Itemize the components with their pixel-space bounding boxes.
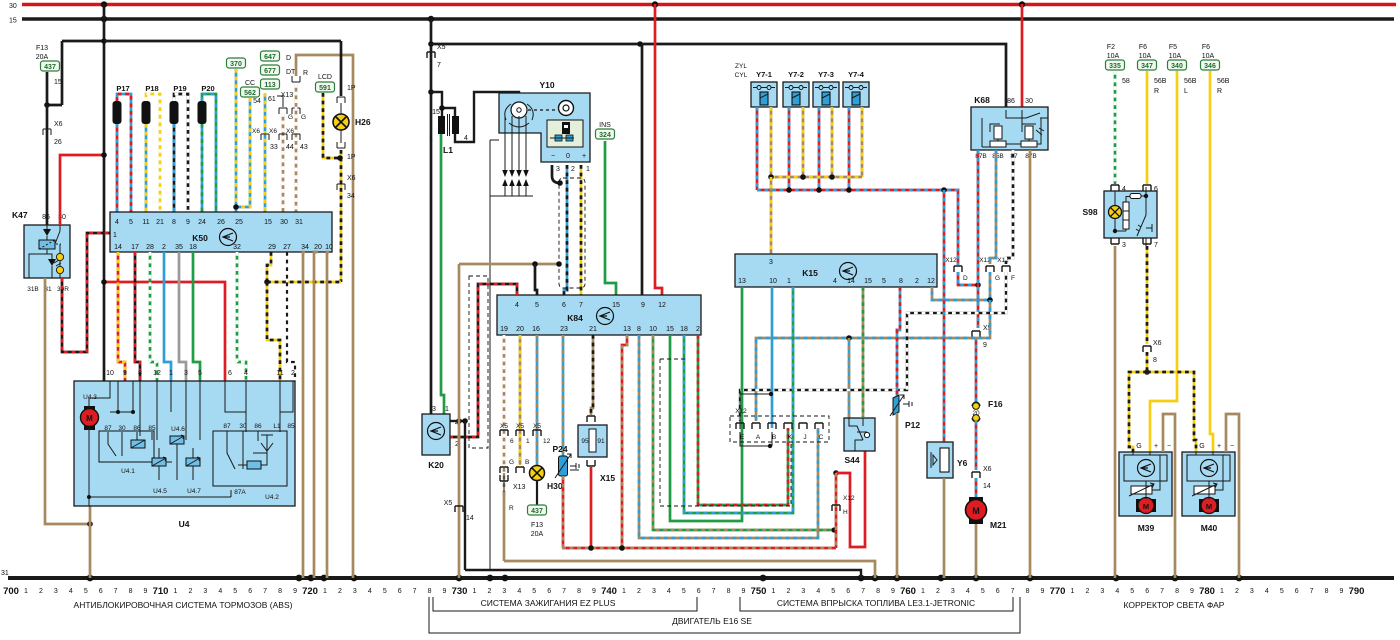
svg-text:X12: X12 xyxy=(735,408,747,415)
svg-text:770: 770 xyxy=(1050,586,1066,597)
wire fuse to K47 pin86 xyxy=(46,105,49,225)
svg-text:44: 44 xyxy=(286,144,294,151)
svg-text:X13: X13 xyxy=(513,484,526,491)
svg-text:591: 591 xyxy=(319,85,331,92)
svg-text:M: M xyxy=(1143,502,1149,511)
wire Y6 ground xyxy=(943,478,946,578)
svg-text:4: 4 xyxy=(667,588,671,595)
wire Y10-3 to cable shield xyxy=(552,165,560,183)
svg-text:9: 9 xyxy=(891,588,895,595)
svg-text:9: 9 xyxy=(144,588,148,595)
fuel pump M21 xyxy=(969,497,983,524)
ignition coil L1 xyxy=(431,92,442,116)
svg-text:2: 2 xyxy=(291,370,295,377)
svg-text:4: 4 xyxy=(69,588,73,595)
wire K20-4 xyxy=(450,420,465,422)
svg-text:3: 3 xyxy=(1100,588,1104,595)
wire brown ground link y561 xyxy=(504,561,875,578)
spark plug gaps xyxy=(504,116,506,196)
svg-text:780: 780 xyxy=(1199,586,1215,597)
svg-text:86: 86 xyxy=(42,214,50,221)
wire K84-4 coil primary shielded xyxy=(450,284,517,437)
wire X12-D to fuel pump line xyxy=(958,272,978,285)
ABS control unit connector K50 xyxy=(110,212,332,252)
wire K50-34 ground xyxy=(303,252,305,578)
wire to M39-G xyxy=(1129,372,1147,452)
wire K20-4 ground link xyxy=(464,421,466,570)
svg-text:2: 2 xyxy=(571,166,575,173)
svg-text:30: 30 xyxy=(280,219,288,226)
wire K84-15 to K15-13 xyxy=(670,287,742,521)
wire feed y44 to K68-86 xyxy=(431,44,1006,110)
svg-text:+: + xyxy=(1154,443,1158,450)
shield of distributor cable xyxy=(559,178,585,288)
wire signal y548 xyxy=(562,547,836,550)
svg-text:19: 19 xyxy=(500,326,508,333)
svg-text:−: − xyxy=(1167,443,1171,450)
svg-text:B: B xyxy=(525,459,529,466)
svg-text:H30: H30 xyxy=(547,481,563,491)
svg-text:−: − xyxy=(551,153,555,160)
relay U4.2 xyxy=(213,431,287,486)
svg-text:24: 24 xyxy=(198,219,206,226)
svg-text:87: 87 xyxy=(104,425,112,432)
relay K47 xyxy=(24,225,70,278)
connector X6 pin 26 xyxy=(43,129,51,135)
svg-text:10A: 10A xyxy=(1139,53,1152,60)
svg-text:61: 61 xyxy=(268,96,276,103)
svg-text:P12: P12 xyxy=(905,420,920,430)
wire 61 to K50 pin15 xyxy=(264,93,267,212)
svg-text:6: 6 xyxy=(228,370,232,377)
svg-text:X5: X5 xyxy=(516,423,524,430)
svg-text:5: 5 xyxy=(882,278,886,285)
svg-text:L: L xyxy=(1184,88,1188,95)
svg-text:5: 5 xyxy=(129,219,133,226)
svg-text:9: 9 xyxy=(592,588,596,595)
svg-text:8: 8 xyxy=(278,588,282,595)
wire S98-3 ground xyxy=(1114,246,1117,578)
svg-text:C: C xyxy=(819,434,824,441)
svg-text:1: 1 xyxy=(526,438,530,445)
svg-text:6: 6 xyxy=(398,588,402,595)
leveling motor M40 xyxy=(1182,452,1235,516)
wire K50-18 to U4-5 xyxy=(193,252,200,381)
svg-text:13: 13 xyxy=(738,278,746,285)
wire K84-13 down xyxy=(622,335,627,548)
svg-text:3: 3 xyxy=(556,166,560,173)
wire to U4 pin11 xyxy=(267,282,280,381)
svg-text:9: 9 xyxy=(1041,588,1045,595)
svg-text:31: 31 xyxy=(1,570,9,577)
wire K50-28 to U4-12 xyxy=(150,252,157,381)
wire K84-19 via X5-6 xyxy=(503,335,506,498)
svg-text:K15: K15 xyxy=(802,268,818,278)
svg-text:20A: 20A xyxy=(531,531,544,538)
wire K50-35 to U4-3 xyxy=(179,252,186,381)
svg-text:2: 2 xyxy=(338,588,342,595)
svg-text:9: 9 xyxy=(742,588,746,595)
svg-text:87: 87 xyxy=(223,423,231,430)
svg-text:5: 5 xyxy=(84,588,88,595)
connector X6 pin 8 xyxy=(1143,346,1151,352)
svg-text:15: 15 xyxy=(432,109,440,116)
svg-text:340: 340 xyxy=(1171,63,1183,70)
svg-text:324: 324 xyxy=(599,132,611,139)
svg-text:29: 29 xyxy=(268,244,276,251)
svg-text:X6: X6 xyxy=(54,121,63,128)
svg-text:21: 21 xyxy=(589,326,597,333)
svg-text:СИСТЕМА ЗАЖИГАНИЯ EZ PLUS: СИСТЕМА ЗАЖИГАНИЯ EZ PLUS xyxy=(481,598,616,608)
connector X12-F xyxy=(1002,266,1010,272)
svg-text:P18: P18 xyxy=(145,84,158,93)
wire K50-29 down xyxy=(267,252,271,282)
wire brown trunk R xyxy=(296,55,353,578)
wire injector feed xyxy=(848,107,851,190)
svg-text:+: + xyxy=(582,153,586,160)
svg-text:СИСТЕМА ВПРЫСКА ТОПЛИВА LE3.1-: СИСТЕМА ВПРЫСКА ТОПЛИВА LE3.1-JETRONIC xyxy=(777,598,975,608)
svg-text:8: 8 xyxy=(172,219,176,226)
svg-text:9: 9 xyxy=(123,370,127,377)
svg-text:15: 15 xyxy=(264,219,272,226)
wire K50-20 ground xyxy=(314,252,318,578)
svg-text:2: 2 xyxy=(162,244,166,251)
svg-text:3: 3 xyxy=(184,370,188,377)
wire H26 to node y282 xyxy=(340,150,343,282)
svg-text:K47: K47 xyxy=(12,210,28,220)
svg-text:23: 23 xyxy=(560,326,568,333)
connector X12-D xyxy=(954,266,962,272)
svg-text:5: 5 xyxy=(682,588,686,595)
svg-text:1: 1 xyxy=(771,588,775,595)
svg-text:M39: M39 xyxy=(1138,523,1155,533)
svg-text:85: 85 xyxy=(148,425,156,432)
wire K50-2 to U4-1 xyxy=(164,252,171,381)
bus 30 (red, top) xyxy=(22,3,1396,7)
svg-text:S98: S98 xyxy=(1082,207,1097,217)
wire S98-7 leveling signal xyxy=(1146,246,1149,344)
wire L1-1 to K20-1 xyxy=(441,134,444,414)
svg-text:8: 8 xyxy=(899,278,903,285)
svg-text:D: D xyxy=(963,275,968,282)
svg-text:335: 335 xyxy=(1109,63,1121,70)
wire injector return xyxy=(802,107,805,177)
wire 15-feed X5 vertical xyxy=(430,19,433,414)
svg-text:346: 346 xyxy=(1204,63,1216,70)
svg-text:9: 9 xyxy=(983,342,987,349)
svg-text:15: 15 xyxy=(54,79,62,86)
svg-text:6: 6 xyxy=(996,588,1000,595)
wire L1-4 to distributor xyxy=(455,92,519,142)
svg-text:347: 347 xyxy=(1141,63,1153,70)
ref boxes 647 677 113 xyxy=(261,51,280,61)
svg-text:20: 20 xyxy=(516,326,524,333)
svg-text:11: 11 xyxy=(276,370,283,377)
svg-text:30: 30 xyxy=(118,425,126,432)
svg-text:6: 6 xyxy=(99,588,103,595)
svg-text:7: 7 xyxy=(1160,588,1164,595)
svg-text:Y7-3: Y7-3 xyxy=(818,70,834,79)
svg-text:10: 10 xyxy=(769,278,777,285)
svg-text:2: 2 xyxy=(1085,588,1089,595)
svg-text:5: 5 xyxy=(198,370,202,377)
svg-text:8: 8 xyxy=(1325,588,1329,595)
wire F5 to M39 plus xyxy=(1150,71,1177,452)
svg-text:86: 86 xyxy=(254,423,262,430)
svg-text:АНТИБЛОКИРОВОЧНАЯ СИСТЕМА ТОРМ: АНТИБЛОКИРОВОЧНАЯ СИСТЕМА ТОРМОЗОВ (ABS) xyxy=(74,600,293,610)
svg-text:X5: X5 xyxy=(533,423,541,430)
svg-text:15: 15 xyxy=(666,326,674,333)
wire injector feed xyxy=(756,107,759,190)
connector X12-G xyxy=(986,266,994,272)
wire Y10-1 to K84-7 xyxy=(580,165,583,295)
svg-text:−: − xyxy=(1230,443,1234,450)
wire INS to K84-15 xyxy=(605,141,616,295)
relay U4.1 xyxy=(99,431,154,462)
svg-text:F16: F16 xyxy=(988,399,1003,409)
svg-text:56B: 56B xyxy=(1217,78,1230,85)
svg-text:56B: 56B xyxy=(1184,78,1197,85)
svg-text:U4.6: U4.6 xyxy=(171,426,185,433)
svg-text:14: 14 xyxy=(847,278,855,285)
svg-text:7: 7 xyxy=(712,588,716,595)
svg-text:1P: 1P xyxy=(347,154,356,161)
svg-text:437: 437 xyxy=(531,508,543,515)
svg-text:6: 6 xyxy=(846,588,850,595)
svg-text:G: G xyxy=(1136,443,1141,450)
svg-text:КОРРЕКТОР СВЕТА ФАР: КОРРЕКТОР СВЕТА ФАР xyxy=(1124,600,1225,610)
wire K50-10 ground xyxy=(327,252,329,578)
svg-text:31B: 31B xyxy=(27,286,39,293)
wire K50-32 to U4-4 xyxy=(237,252,246,381)
svg-text:H26: H26 xyxy=(355,117,371,127)
svg-text:M: M xyxy=(1206,502,1212,511)
wire K15-5 to P12 xyxy=(897,287,900,398)
connector X5 pin 7 xyxy=(427,52,435,58)
svg-text:U4.1: U4.1 xyxy=(121,468,135,475)
svg-text:15: 15 xyxy=(612,302,620,309)
svg-text:1: 1 xyxy=(622,588,626,595)
svg-text:Y7-1: Y7-1 xyxy=(756,70,772,79)
svg-text:34: 34 xyxy=(301,244,309,251)
svg-text:A: A xyxy=(756,434,761,441)
svg-text:X5: X5 xyxy=(444,500,453,507)
svg-text:R: R xyxy=(509,505,514,512)
svg-text:7: 7 xyxy=(1154,242,1158,249)
svg-text:8: 8 xyxy=(129,588,133,595)
svg-text:5: 5 xyxy=(831,588,835,595)
svg-text:X15: X15 xyxy=(600,473,615,483)
svg-text:F5: F5 xyxy=(1169,44,1177,51)
svg-text:12: 12 xyxy=(543,438,551,445)
svg-text:87A: 87A xyxy=(234,489,246,496)
svg-text:30: 30 xyxy=(1025,98,1033,105)
wire injector rail to Y6 xyxy=(943,190,946,442)
svg-text:U4.2: U4.2 xyxy=(265,494,279,501)
svg-text:12: 12 xyxy=(153,370,161,377)
svg-text:1: 1 xyxy=(445,406,449,413)
wire injector return rail xyxy=(771,176,862,179)
svg-text:1: 1 xyxy=(1071,588,1075,595)
svg-text:10: 10 xyxy=(106,370,114,377)
svg-text:U4: U4 xyxy=(179,519,190,529)
headlamp leveling switch S98 xyxy=(1111,185,1119,191)
svg-text:3: 3 xyxy=(432,406,436,413)
svg-text:7: 7 xyxy=(263,588,267,595)
wire injector return xyxy=(831,107,834,177)
svg-text:ZYL: ZYL xyxy=(735,63,747,70)
svg-text:370: 370 xyxy=(230,61,242,68)
svg-text:113: 113 xyxy=(264,82,275,89)
svg-text:2: 2 xyxy=(39,588,43,595)
svg-text:2: 2 xyxy=(696,326,700,333)
bracket engine E16 SE xyxy=(429,597,1020,633)
svg-text:437: 437 xyxy=(44,64,56,71)
svg-text:CYL: CYL xyxy=(735,72,748,79)
wire K47-31B ground xyxy=(45,278,90,524)
wire R to ground link xyxy=(503,492,506,561)
svg-text:3: 3 xyxy=(769,259,773,266)
wire K84-21 to X15 xyxy=(591,335,593,415)
svg-text:7: 7 xyxy=(114,588,118,595)
wire K68-87 to X12-F xyxy=(1006,150,1013,264)
svg-text:4: 4 xyxy=(244,370,248,377)
wire 370 to K50 pin25 xyxy=(235,69,238,212)
wire injector feed rail to X12-D xyxy=(757,190,958,265)
svg-text:6: 6 xyxy=(248,588,252,595)
svg-text:D: D xyxy=(286,55,291,62)
wire F6 to M40 plus xyxy=(1210,71,1213,452)
svg-text:8: 8 xyxy=(727,588,731,595)
wire P24 to y548 xyxy=(562,476,565,548)
svg-text:M: M xyxy=(972,506,980,516)
junction dots on bus 15 xyxy=(101,16,107,22)
svg-text:R: R xyxy=(1154,88,1159,95)
svg-text:15: 15 xyxy=(864,278,872,285)
svg-text:3: 3 xyxy=(203,588,207,595)
svg-text:8: 8 xyxy=(637,326,641,333)
wire return rail to K15-3 xyxy=(770,177,773,255)
svg-text:760: 760 xyxy=(900,586,916,597)
svg-text:5: 5 xyxy=(383,588,387,595)
svg-text:4: 4 xyxy=(517,588,521,595)
svg-text:K: K xyxy=(788,434,793,441)
svg-text:X6: X6 xyxy=(347,175,356,182)
svg-text:33: 33 xyxy=(270,144,278,151)
ignition control unit K84 xyxy=(497,295,701,335)
wire K84-23 to P24 xyxy=(562,335,565,456)
svg-text:G: G xyxy=(1199,443,1204,450)
wire shield drain to K84-5 xyxy=(535,264,537,295)
svg-text:M: M xyxy=(86,414,93,423)
svg-text:3: 3 xyxy=(353,588,357,595)
svg-text:R: R xyxy=(303,70,308,77)
svg-text:7: 7 xyxy=(861,588,865,595)
wire K84-18 to K15-1 xyxy=(684,287,793,513)
svg-text:CC: CC xyxy=(245,80,255,87)
svg-text:1: 1 xyxy=(113,232,117,239)
wire K68-85B to X12-G xyxy=(990,150,996,264)
svg-text:INS: INS xyxy=(599,122,611,129)
svg-text:1: 1 xyxy=(787,278,791,285)
svg-text:7: 7 xyxy=(1011,588,1015,595)
wire X12-G to X12-A xyxy=(756,300,990,421)
svg-text:2: 2 xyxy=(936,588,940,595)
leveling motor M39 xyxy=(1119,452,1172,516)
wire K84-20 via X5-1 xyxy=(519,335,522,465)
svg-text:2: 2 xyxy=(1235,588,1239,595)
svg-text:3: 3 xyxy=(1122,242,1126,249)
svg-text:F: F xyxy=(1011,275,1015,282)
svg-text:U4.7: U4.7 xyxy=(187,488,201,495)
wire K50-17 to U4-8 xyxy=(135,252,140,381)
svg-text:ДВИГАТЕЛЬ E16 SE: ДВИГАТЕЛЬ E16 SE xyxy=(672,616,752,626)
bracket ignition system xyxy=(433,597,697,611)
svg-text:4: 4 xyxy=(833,278,837,285)
svg-text:85B: 85B xyxy=(992,153,1004,160)
svg-text:8: 8 xyxy=(138,370,142,377)
wire F2 to S98-4 xyxy=(1114,71,1117,184)
svg-text:7: 7 xyxy=(1310,588,1314,595)
wire U4 motor ground xyxy=(89,506,92,578)
svg-text:30: 30 xyxy=(239,423,247,430)
svg-text:28: 28 xyxy=(146,244,154,251)
svg-text:54: 54 xyxy=(253,98,261,105)
svg-text:4: 4 xyxy=(368,588,372,595)
svg-text:X5: X5 xyxy=(500,423,508,430)
svg-text:F13: F13 xyxy=(531,522,543,529)
wire M39 minus ground xyxy=(1163,414,1175,578)
relay K20 xyxy=(422,414,450,455)
svg-text:9: 9 xyxy=(443,588,447,595)
warning lamp H30 xyxy=(530,466,545,481)
svg-text:27: 27 xyxy=(283,244,291,251)
svg-text:14: 14 xyxy=(466,515,474,522)
lamp H26 xyxy=(340,41,343,96)
wire K84-8 to X12-C xyxy=(639,335,818,538)
svg-text:10A: 10A xyxy=(1202,53,1215,60)
wire node to S44 xyxy=(836,451,865,547)
ground bus 31 xyxy=(8,576,1394,580)
svg-text:13: 13 xyxy=(623,326,631,333)
svg-text:8: 8 xyxy=(1026,588,1030,595)
wire H30 to F13 ref xyxy=(536,480,538,505)
svg-text:18: 18 xyxy=(189,244,197,251)
svg-text:2: 2 xyxy=(188,588,192,595)
svg-text:26: 26 xyxy=(54,139,62,146)
svg-text:5: 5 xyxy=(233,588,237,595)
wire P12 ground xyxy=(896,413,899,578)
wire 562 join xyxy=(236,98,250,207)
svg-text:1: 1 xyxy=(586,166,590,173)
wire M40 minus ground xyxy=(1226,414,1239,578)
svg-text:1: 1 xyxy=(472,588,476,595)
svg-text:4: 4 xyxy=(115,219,119,226)
svg-text:E: E xyxy=(740,434,745,441)
svg-text:1: 1 xyxy=(24,588,28,595)
svg-text:700: 700 xyxy=(3,586,19,597)
svg-text:86: 86 xyxy=(1007,98,1015,105)
svg-text:730: 730 xyxy=(452,586,468,597)
svg-text:740: 740 xyxy=(601,586,617,597)
wire black ground link y570 xyxy=(465,570,861,578)
svg-text:20A: 20A xyxy=(36,54,49,61)
svg-text:1: 1 xyxy=(921,588,925,595)
bus 15 (black) xyxy=(22,17,1394,21)
svg-text:4: 4 xyxy=(816,588,820,595)
svg-text:56B: 56B xyxy=(1154,78,1167,85)
svg-text:F6: F6 xyxy=(1139,44,1147,51)
